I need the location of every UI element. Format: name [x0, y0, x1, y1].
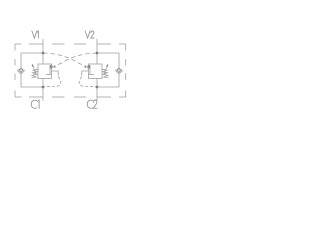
wire: V2 main line lower segment	[96, 79, 98, 101]
check valve CV2 (diamond with ball)	[116, 68, 123, 74]
wire: V1 main line lower segment	[42, 79, 44, 101]
relief valve RV2 spring	[102, 69, 108, 78]
enclosure dashed box left edge	[14, 44, 16, 97]
relief valve RV1 adjust arrow	[32, 64, 37, 75]
junction dot V1 top node	[42, 52, 45, 55]
relief valve RV1 pilot port box	[50, 65, 53, 68]
port label C1	[31, 100, 39, 109]
relief valve RV1 body	[38, 64, 52, 79]
enclosure dashed box top edge	[15, 43, 126, 45]
pilot line from V2 node to RV1 (dashed crossover)	[55, 53, 98, 67]
relief valve RV1 internal seat lines	[46, 66, 52, 75]
port label V2	[85, 31, 94, 38]
wire: left check branch	[21, 53, 43, 87]
relief valve RV1 spring	[32, 69, 38, 78]
pilot arrowhead into RV2	[84, 65, 87, 67]
relief valve RV2 drain dashed line to C2 node	[79, 77, 96, 88]
relief valve RV1 outlet elbow	[52, 71, 59, 76]
relief valve RV2 outlet elbow	[82, 71, 89, 76]
relief valve RV2 adjust arrow	[104, 64, 109, 75]
wire: V2 main line upper segment	[96, 39, 98, 64]
pilot arrowhead into RV1	[53, 65, 56, 67]
enclosure dashed box bottom edge	[15, 96, 126, 98]
port label C2	[87, 100, 97, 108]
relief valve RV1 drain dashed line to C1 node	[44, 77, 61, 88]
relief valve RV2 body	[89, 64, 103, 79]
relief valve RV2 pilot port box	[88, 65, 91, 68]
pilot line from V1 node to RV2 (dashed crossover)	[43, 53, 86, 67]
check valve CV1 (diamond with ball)	[18, 68, 25, 74]
junction dot C1 bottom node	[42, 86, 45, 89]
wire: V1 main line upper segment	[42, 39, 44, 64]
wire: right check branch	[97, 53, 119, 87]
enclosure dashed box right edge	[125, 44, 127, 97]
junction dot V2 top node	[96, 52, 99, 55]
relief valve RV2 internal seat lines	[89, 66, 95, 75]
port label V1	[32, 31, 39, 38]
junction dot C2 bottom node	[96, 86, 99, 89]
